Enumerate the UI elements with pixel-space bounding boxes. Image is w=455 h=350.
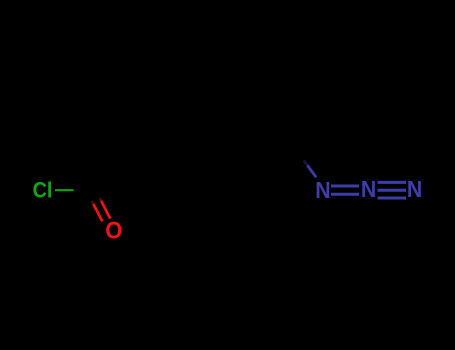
wire: bond ring to acyl carbon (95, 183, 142, 192)
wire: bond acyl carbon to Cl (carbon half, dark) (73, 189, 95, 192)
wire: bond CH2 to N1 (nitrogen half, blue) (307, 165, 316, 177)
svg-text:O: O (105, 218, 122, 245)
wire: CH2-N1 bond fade stub (304, 161, 308, 166)
N2#N3 triple bond (378, 182, 407, 198)
wire: bond acyl carbon to Cl (chlorine half, green) (55, 189, 74, 191)
svg-text:N: N (407, 176, 422, 202)
svg-text:Cl: Cl (33, 178, 53, 203)
svg-text:N: N (315, 177, 330, 203)
benzene ring (carbon skeleton, black-on-black) (142, 120, 254, 224)
capacitor-style C=O double bond (carbon half, dark) (88, 190, 102, 205)
wire: bond ring to CH2 carbon (254, 153, 298, 161)
svg-text:N: N (361, 176, 376, 202)
N1=N2 double bond (331, 186, 359, 194)
C=O double bond (oxygen half, red) (92, 198, 101, 204)
wire: bond CH2 to N1 (carbon half, dark) (299, 154, 308, 166)
